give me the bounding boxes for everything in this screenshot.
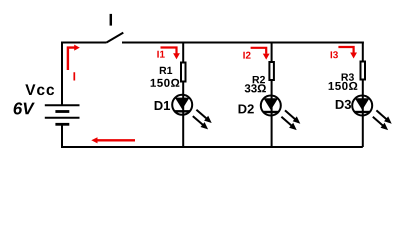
resistor R3 (361, 62, 366, 80)
current arrow I3 (338, 47, 357, 59)
label I2 (243, 52, 250, 59)
current arrow I2 (251, 48, 270, 60)
label 150ohm R3 (329, 82, 358, 90)
label Vcc (25, 84, 54, 95)
current return arrow (bottom red) (91, 137, 135, 143)
label D1 (155, 101, 170, 110)
current arrow I1 (161, 48, 180, 60)
label D3 (336, 100, 351, 109)
wire top rail (122, 42, 364, 44)
wire branch 1 (182, 43, 184, 148)
label 6V (14, 102, 35, 114)
resistor R1 (181, 63, 186, 82)
label R1 (160, 67, 172, 74)
label 33ohm R2 (245, 84, 266, 92)
LED D3 (352, 96, 392, 131)
label D2 (239, 104, 254, 113)
wire left rail lower and bottom rail (62, 124, 363, 147)
current arrow I (red loop) (68, 45, 80, 70)
label R3 (342, 73, 354, 80)
label R2 (253, 76, 265, 83)
label I3 (331, 51, 338, 58)
wire left rail top segment (62, 43, 107, 105)
battery Vcc (45, 105, 80, 124)
label 150ohm R1 (151, 79, 180, 87)
wire branch 2 (271, 43, 273, 148)
label I (switch) (110, 14, 112, 26)
label I (red) (73, 72, 75, 80)
switch S1 blade (107, 33, 124, 43)
label I1 (157, 51, 164, 58)
LED D1 (172, 95, 212, 130)
resistor R2 (269, 62, 274, 80)
wire branch 3 right rail (362, 42, 364, 148)
LED D2 (261, 96, 301, 131)
